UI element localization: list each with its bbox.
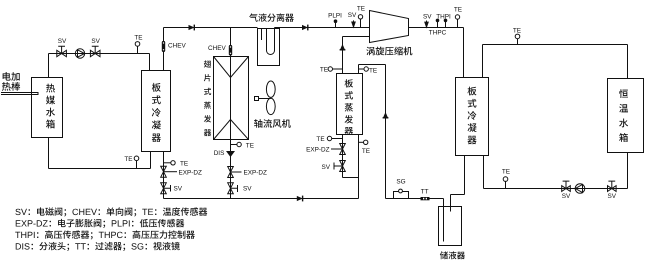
svg-text:EXP-DZ: EXP-DZ xyxy=(244,170,268,177)
svg-text:TE: TE xyxy=(362,148,370,155)
svg-text:TE: TE xyxy=(316,136,324,143)
svg-text:SV: SV xyxy=(91,38,100,45)
svg-text:SV: SV xyxy=(243,186,252,193)
svg-text:TT: TT xyxy=(421,188,429,195)
svg-text:TE: TE xyxy=(246,143,254,150)
svg-text:DIS: DIS xyxy=(214,150,225,157)
svg-text:THPI: THPI xyxy=(436,13,451,20)
svg-text:PLPI: PLPI xyxy=(328,13,342,20)
svg-text:SV: SV xyxy=(58,38,67,45)
svg-text:TE: TE xyxy=(180,160,188,167)
svg-text:SV: SV xyxy=(321,164,330,171)
svg-text:THPC: THPC xyxy=(429,30,447,37)
svg-text:TE: TE xyxy=(513,28,521,35)
svg-text:TE: TE xyxy=(320,67,328,74)
svg-text:TE: TE xyxy=(502,169,510,176)
svg-text:TE: TE xyxy=(124,156,132,163)
svg-text:SV: SV xyxy=(608,193,617,200)
svg-text:CHEV: CHEV xyxy=(168,43,186,50)
svg-text:EXP-DZ: EXP-DZ xyxy=(306,147,330,154)
svg-text:TE: TE xyxy=(357,6,365,13)
svg-text:TE: TE xyxy=(369,67,377,74)
svg-text:SV: SV xyxy=(423,13,432,20)
svg-text:SV: SV xyxy=(562,193,571,200)
svg-text:EXP-DZ: EXP-DZ xyxy=(179,169,203,176)
svg-text:SV: SV xyxy=(174,186,183,193)
svg-text:TE: TE xyxy=(454,7,462,14)
svg-text:SV: SV xyxy=(348,12,357,19)
svg-text:SG: SG xyxy=(396,178,405,185)
svg-text:CHEV: CHEV xyxy=(208,45,226,52)
svg-text:TE: TE xyxy=(134,34,142,41)
